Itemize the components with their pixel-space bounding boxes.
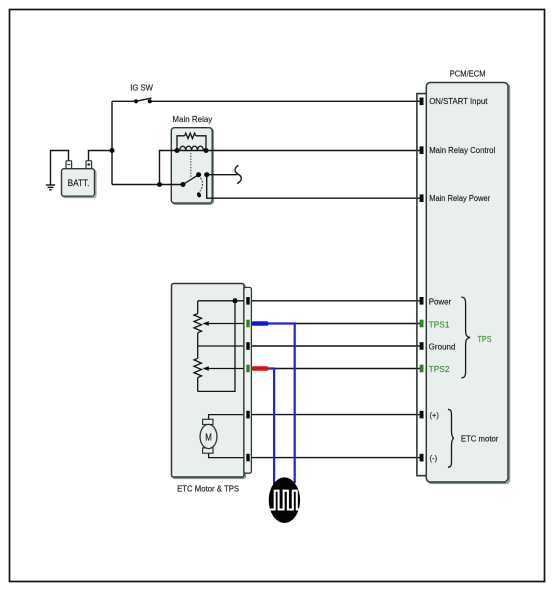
svg-text:BATT.: BATT. (68, 178, 90, 188)
svg-text:(+): (+) (430, 411, 440, 420)
svg-text:Power: Power (429, 298, 452, 307)
svg-text:Main Relay Control: Main Relay Control (429, 146, 495, 155)
svg-text:M: M (205, 431, 212, 443)
svg-text:PCM/ECM: PCM/ECM (450, 68, 486, 78)
svg-text:IG SW: IG SW (130, 82, 153, 92)
svg-text:TPS: TPS (478, 334, 492, 344)
svg-text:TPS2: TPS2 (429, 365, 450, 374)
svg-text:ETC Motor & TPS: ETC Motor & TPS (177, 483, 239, 493)
svg-text:ETC motor: ETC motor (461, 434, 499, 443)
svg-text:Main Relay: Main Relay (172, 114, 213, 124)
svg-text:ON/START Input: ON/START Input (429, 97, 488, 106)
svg-text:(-): (-) (430, 454, 438, 463)
svg-text:Ground: Ground (429, 342, 456, 351)
svg-text:Main Relay Power: Main Relay Power (429, 194, 490, 203)
svg-text:TPS1: TPS1 (429, 320, 450, 329)
